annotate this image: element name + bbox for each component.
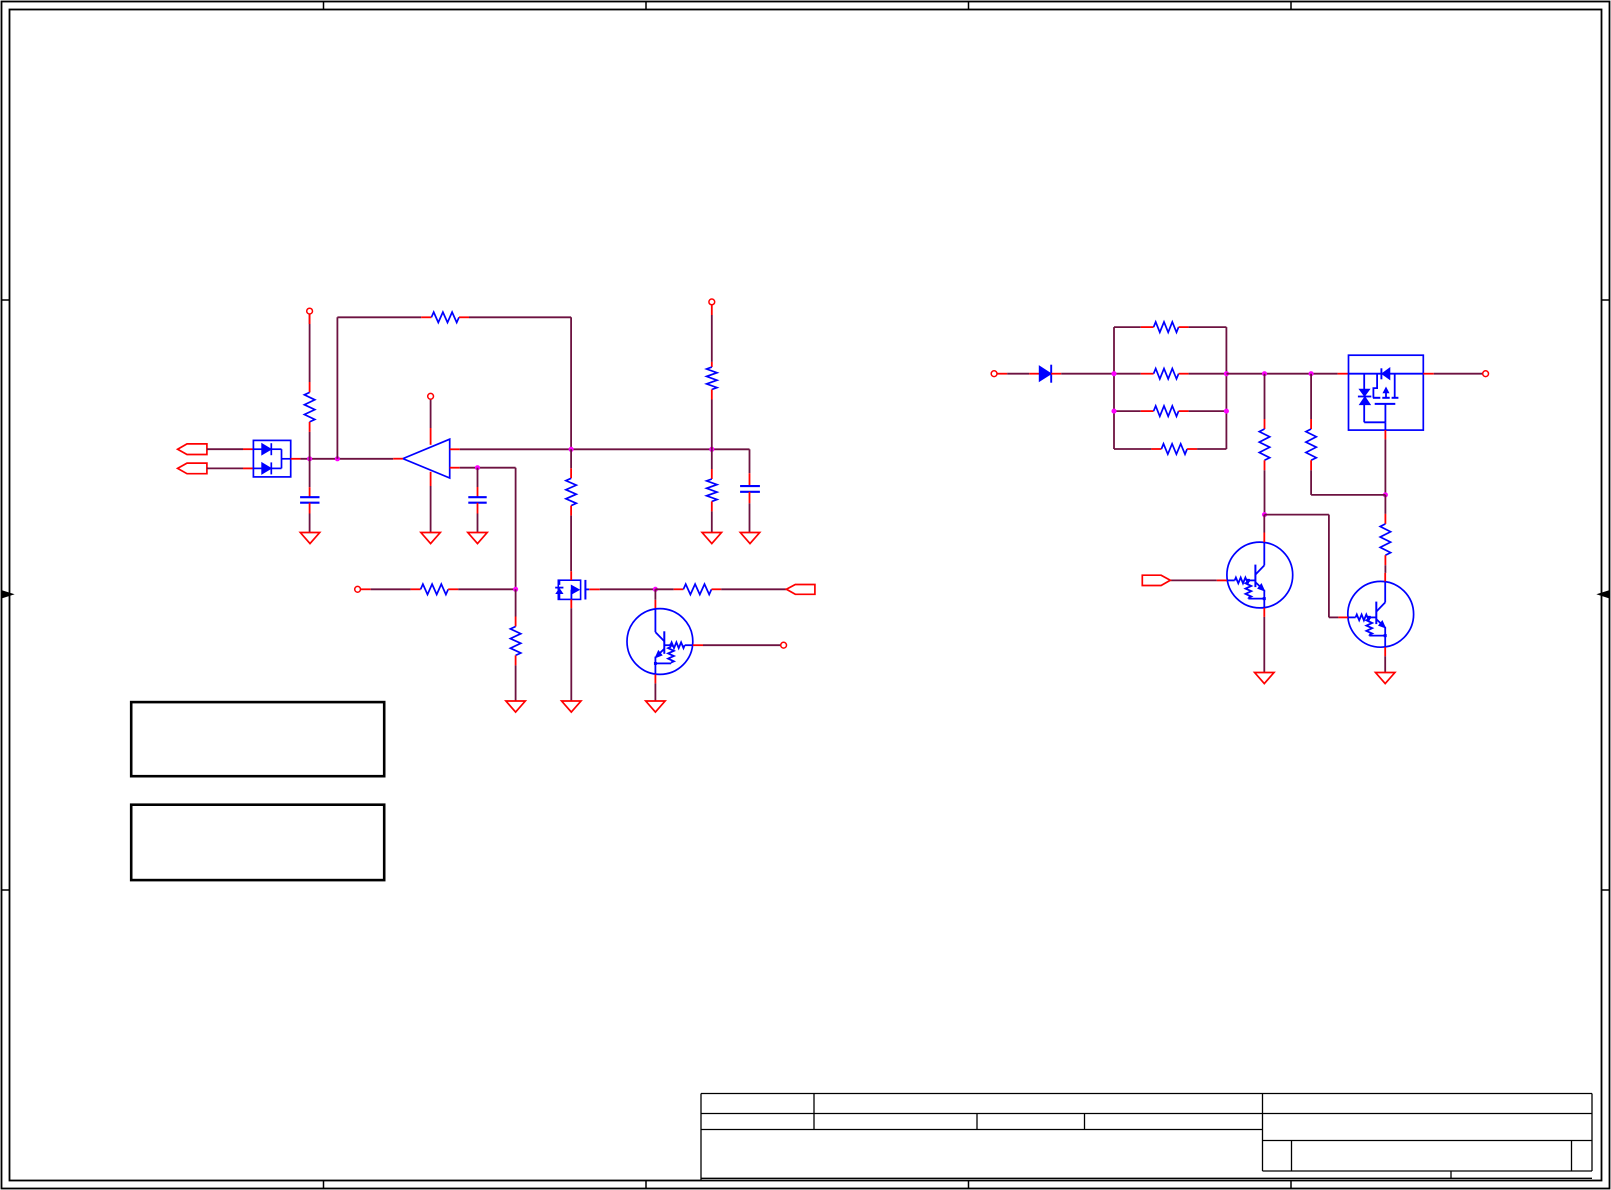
resistor R4 (net B to Q5 drain) (566, 449, 576, 515)
pin Q1 collector (1263, 533, 1265, 543)
wire (1114, 410, 1141, 412)
MOSFET Q5 (small p-channel) (555, 580, 589, 600)
net connector (right output) (1483, 371, 1489, 377)
port P2 (bottom-left input) (178, 463, 207, 474)
capacitor C3 (468, 468, 486, 514)
resistor R12 (bank row 3) (1141, 406, 1189, 416)
ground (Q2) (1376, 673, 1395, 684)
pin U2 V+ (430, 428, 432, 445)
pin Q2 emitter (1384, 647, 1386, 656)
dual diode D1 (common cathode) (253, 440, 290, 477)
resistor R7 (411, 584, 459, 594)
title block (701, 1094, 1592, 1181)
wire R9 to port P3 (721, 588, 786, 590)
resistor R1 (304, 382, 314, 432)
pin Q2 base (1338, 616, 1347, 618)
ground (Q1) (1255, 673, 1274, 684)
op-amp U2 (403, 439, 450, 478)
ground (C1) (300, 533, 319, 544)
junction gate / R16 (1383, 492, 1388, 497)
wire (1189, 373, 1227, 375)
border right center arrow (1598, 591, 1609, 598)
pin Q3 source (1338, 373, 1349, 375)
wire resistor bank left bus (1113, 327, 1115, 449)
wire input to D2 (1007, 373, 1029, 375)
wire P1 to U1 (207, 448, 243, 450)
junction net B / feedback-R4 (569, 447, 574, 452)
transistor Q1 (digital) (1227, 542, 1293, 608)
wire C2 to ground (749, 503, 751, 532)
wire Q1 emitter to ground (1263, 617, 1265, 673)
transistor Q4 (digital, mirrored) (627, 600, 693, 675)
resistor R8 (net D to ground) (510, 589, 520, 665)
resistor R11 (bank row 2) (1141, 369, 1189, 379)
wire Q3 to output (1434, 373, 1483, 375)
pin right input (997, 373, 1007, 375)
wire R14 to Q1 (1264, 470, 1266, 514)
wire node to Q4 collector (654, 589, 656, 600)
pin Q3 gate (1384, 430, 1386, 439)
pin R5 top lead (711, 305, 713, 315)
wire R8 to ground (515, 665, 517, 701)
ground (C3) (468, 533, 487, 544)
pin Q1 base (1217, 579, 1227, 581)
junction bank right row3 (1224, 409, 1229, 414)
wire branch vertical (1328, 515, 1330, 618)
wire feedback vertical left (336, 317, 338, 459)
wire net A (D1 to op-amp output) (300, 458, 393, 460)
wire net A to C1 (309, 459, 311, 487)
pin Q3 drain (1423, 373, 1434, 375)
wire D2 to resistor bank (1061, 373, 1114, 375)
pin net D left (361, 588, 371, 590)
wire (1189, 326, 1227, 328)
net connector (net D left) (355, 586, 361, 592)
resistor R10 (bank row 1) (1141, 322, 1189, 332)
wire C3 to ground (477, 514, 479, 533)
junction net E / R15 (1309, 371, 1314, 376)
net connector (right input) (991, 371, 997, 377)
resistor R9 (674, 584, 722, 594)
wire net E (bank to Q3) (1226, 373, 1337, 375)
wire R6 to ground (711, 511, 713, 532)
ground (Q5) (562, 701, 581, 712)
power pin (R1 top) (307, 308, 313, 314)
wire net D (371, 588, 411, 590)
wire R4 to Q5 (570, 516, 572, 572)
wire branch to Q2 base (1329, 616, 1339, 618)
port P1 (top-left input) (178, 444, 207, 455)
MOSFET Q3 (p-channel with protection) (1349, 355, 1424, 430)
wire R1 to net A (309, 432, 311, 459)
wire resistor bank right bus (1225, 327, 1227, 449)
ground (C2) (740, 533, 759, 544)
wire net C (op-amp - input) (460, 467, 516, 469)
pin Q4 base (693, 644, 703, 646)
wire feedback top (337, 316, 421, 318)
junction net B / R5-R6 (709, 447, 714, 452)
diode D2 (1029, 365, 1061, 383)
pin Q4 emitter (654, 674, 656, 683)
wire junction to Q1 collector (1263, 515, 1265, 533)
resistor R2 (feedback) (421, 312, 469, 322)
wire R15 down (1310, 470, 1312, 495)
wire Q5 gate to node (600, 588, 656, 590)
junction bank left row2 (1112, 371, 1117, 376)
wire (1114, 326, 1141, 328)
wire (309, 314, 311, 324)
pin U2 input- (450, 467, 460, 469)
junction net A / R1 (307, 456, 312, 461)
pin Q5 drain (top) (570, 571, 572, 580)
resistor R14 (net E pulldown left) (1259, 374, 1269, 471)
wire feedback top right (469, 316, 571, 318)
wire P2 to U1 (207, 467, 243, 469)
junction gate node / Q4 collector (653, 587, 658, 592)
transistor Q2 (digital) (1348, 581, 1414, 647)
pin U2 input+ (450, 448, 460, 450)
resistor R5 (707, 362, 717, 400)
wire (1114, 373, 1141, 375)
wire R5 to net B (711, 400, 713, 450)
capacitor C2 (740, 473, 760, 503)
resistor R6 (net B to ground) (707, 449, 717, 511)
wire U2 V- to ground (430, 486, 432, 533)
wire (1114, 448, 1151, 450)
wire (1197, 448, 1226, 450)
wire node to R9 (655, 588, 673, 590)
junction bank right row2 (1224, 371, 1229, 376)
ground (Q4) (646, 701, 665, 712)
resistor R16 (gate to Q2 collector) (1380, 495, 1390, 565)
note box 1 (131, 702, 384, 776)
junction net C / net D / R8 (513, 587, 518, 592)
wire U2 V+ to power (430, 399, 432, 428)
wire (1189, 410, 1227, 412)
pin R1 top lead (309, 314, 311, 324)
ground (U2) (421, 533, 440, 544)
wire C1 to ground (309, 514, 311, 533)
note box 2 (131, 805, 384, 880)
border left center arrow (2, 591, 13, 598)
wire power to R1 (309, 324, 311, 382)
wire power to R5 (711, 315, 713, 362)
pin Q1 emitter (1263, 608, 1265, 617)
net connector (Q4 base) (781, 642, 787, 648)
wire R16 to Q2 (1384, 565, 1386, 573)
pin U1 anode2 (243, 467, 253, 469)
wire branch junction to Q2 base (horizontal) (1265, 514, 1329, 516)
junction net C / C3 (475, 465, 480, 470)
wire net C corner down (515, 468, 517, 590)
pin U2 output (393, 458, 403, 460)
pin U1 anode1 (243, 448, 253, 450)
wire Q3 gate down (1384, 439, 1386, 495)
wire port P4 to Q1 base (1170, 579, 1216, 581)
wire R15 to gate junction (1311, 494, 1385, 496)
junction net E / R14 (1262, 371, 1267, 376)
wire net B corner down (749, 449, 751, 473)
pin Q2 collector (1384, 573, 1386, 582)
port P3 (output) (786, 585, 815, 595)
resistor R15 (1306, 374, 1316, 471)
wire Q5 source to ground (570, 608, 572, 701)
wire Q4 base to connector (703, 644, 781, 646)
capacitor C1 (300, 487, 319, 513)
ground (R8) (506, 701, 525, 712)
junction net A / feedback (335, 456, 340, 461)
wire net B (op-amp + input) (460, 448, 750, 450)
pin D1 cathode (291, 458, 301, 460)
junction Q1 collector / Q2 base branch (1262, 512, 1267, 517)
port P4 (right input) (1142, 575, 1170, 585)
wire R7 to junction (458, 588, 515, 590)
pin Q5 source (bottom) (570, 599, 572, 608)
resistor R13 (bank row 4) (1151, 444, 1197, 454)
junction bank left row3 (1112, 409, 1117, 414)
pin U2 V- (430, 472, 432, 486)
wire Q4 emitter to ground (654, 683, 656, 701)
pin Q5 gate (589, 588, 600, 590)
power pin (R5 top) (709, 299, 715, 305)
wire feedback vertical right (570, 317, 572, 449)
wire Q2 emitter to ground (1384, 656, 1386, 672)
power pin (U2 V+) (428, 393, 434, 399)
ground (R6) (702, 533, 721, 544)
